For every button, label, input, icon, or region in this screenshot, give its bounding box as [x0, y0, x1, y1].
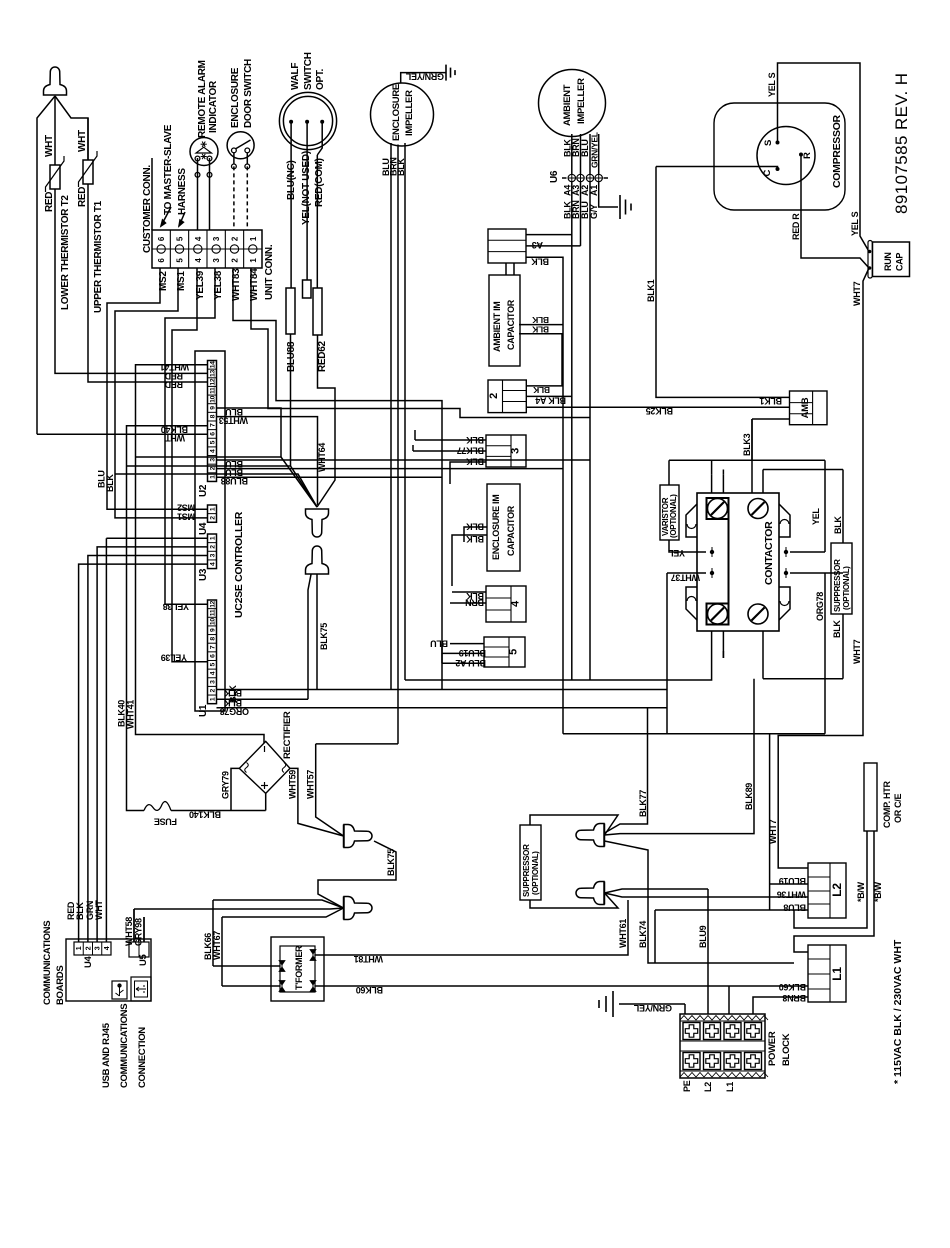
svg-text:T'FORMER: T'FORMER [294, 945, 304, 990]
svg-text:8: 8 [210, 414, 217, 418]
svg-text:YEL39: YEL39 [161, 653, 187, 663]
svg-text:R: R [802, 152, 813, 159]
svg-text:7: 7 [210, 645, 217, 649]
svg-text:BLK: BLK [75, 902, 85, 920]
svg-text:(OPTIONAL): (OPTIONAL) [669, 494, 678, 538]
svg-text:ENCLOSURE IM: ENCLOSURE IM [491, 495, 501, 560]
svg-text:4: 4 [104, 946, 111, 950]
svg-text:A3: A3 [532, 240, 543, 250]
svg-text:U1: U1 [198, 704, 209, 717]
svg-text:SUPPRESSOR: SUPPRESSOR [833, 559, 842, 612]
svg-text:BLK74: BLK74 [638, 921, 648, 948]
svg-text:ENCLOSURE: ENCLOSURE [391, 84, 402, 141]
svg-text:9: 9 [210, 628, 217, 632]
svg-text:INDICATOR: INDICATOR [208, 80, 219, 133]
svg-text:BLK25: BLK25 [646, 406, 673, 416]
svg-text:L1: L1 [830, 967, 844, 981]
svg-text:2: 2 [210, 516, 217, 520]
svg-text:OPT.: OPT. [315, 68, 326, 90]
svg-text:BLK: BLK [531, 325, 549, 335]
svg-text:5: 5 [210, 663, 217, 667]
svg-text:1: 1 [210, 475, 217, 479]
svg-text:4: 4 [210, 449, 217, 453]
svg-text:BLK: BLK [833, 516, 843, 534]
svg-text:6: 6 [210, 654, 217, 658]
svg-text:BLK1: BLK1 [759, 396, 782, 406]
svg-text:USB AND RJ45: USB AND RJ45 [101, 1022, 112, 1088]
svg-text:OR C/E: OR C/E [893, 793, 903, 823]
svg-text:WHT41: WHT41 [126, 700, 136, 729]
svg-text:BRN: BRN [465, 598, 484, 608]
svg-text:5: 5 [210, 440, 217, 444]
svg-text:CONNECTION: CONNECTION [137, 1027, 148, 1088]
svg-text:CAPACITOR: CAPACITOR [506, 505, 516, 556]
svg-text:2: 2 [210, 688, 217, 692]
svg-text:UPPER THERMISTOR T1: UPPER THERMISTOR T1 [93, 200, 104, 313]
svg-text:12: 12 [210, 600, 217, 607]
svg-text:BLK89: BLK89 [744, 783, 754, 810]
svg-text:GRN/YEL: GRN/YEL [405, 72, 444, 82]
svg-text:BLK A4: BLK A4 [535, 395, 566, 405]
svg-text:UC2SE CONTROLLER: UC2SE CONTROLLER [233, 511, 245, 618]
svg-text:U4: U4 [83, 955, 94, 968]
svg-text:BLU: BLU [580, 139, 590, 157]
svg-text:AMBIENT: AMBIENT [562, 84, 573, 126]
svg-text:BLK1: BLK1 [646, 279, 656, 302]
svg-text:PE: PE [682, 1080, 692, 1092]
svg-text:DOOR SWITCH: DOOR SWITCH [243, 59, 254, 128]
svg-text:RED(COM): RED(COM) [314, 158, 325, 207]
svg-text:10: 10 [210, 395, 217, 402]
svg-text:BLK: BLK [466, 522, 484, 532]
svg-text:1: 1 [76, 946, 83, 950]
svg-text:WHT: WHT [77, 130, 88, 152]
svg-text:BLU A2: BLU A2 [455, 658, 486, 668]
svg-text:BLK: BLK [531, 315, 549, 325]
svg-text:12: 12 [210, 378, 217, 385]
svg-text:BLU9: BLU9 [698, 925, 708, 948]
svg-text:(OPTIONAL): (OPTIONAL) [842, 566, 851, 610]
svg-text:BLK: BLK [466, 435, 484, 445]
svg-text:1: 1 [210, 697, 217, 701]
svg-text:WHT57: WHT57 [306, 770, 316, 799]
svg-text:7: 7 [210, 423, 217, 427]
svg-text:BLU88: BLU88 [286, 341, 297, 372]
svg-text:CAP: CAP [895, 253, 905, 271]
svg-text:2: 2 [210, 545, 217, 549]
svg-text:3: 3 [95, 946, 102, 950]
svg-text:BLU: BLU [430, 638, 448, 648]
svg-text:L1: L1 [725, 1082, 735, 1092]
svg-text:BLK75: BLK75 [319, 623, 329, 650]
svg-text:WHT7: WHT7 [852, 281, 862, 306]
svg-text:YEL S: YEL S [767, 72, 777, 97]
svg-text:ORG78: ORG78 [220, 706, 249, 716]
svg-text:BLK: BLK [466, 534, 484, 544]
svg-text:WHT36: WHT36 [777, 890, 806, 900]
svg-text:WHT61: WHT61 [618, 919, 628, 948]
svg-text:* 115VAC BLK / 230VAC WHT: * 115VAC BLK / 230VAC WHT [892, 939, 904, 1084]
svg-text:CONTACTOR: CONTACTOR [763, 521, 775, 585]
svg-text:(OPTIONAL): (OPTIONAL) [531, 851, 540, 895]
svg-text:WHT53: WHT53 [219, 416, 248, 426]
svg-text:WHT41: WHT41 [160, 362, 189, 372]
svg-text:8: 8 [210, 637, 217, 641]
svg-text:BLK: BLK [531, 256, 549, 266]
svg-text:YEL: YEL [668, 548, 685, 558]
svg-text:BLK: BLK [396, 158, 406, 176]
svg-text:CAPACITOR: CAPACITOR [506, 299, 516, 350]
svg-text:BLK75: BLK75 [386, 849, 396, 876]
svg-text:U5: U5 [138, 953, 149, 966]
svg-text:5: 5 [508, 649, 520, 655]
svg-text:RECTIFIER: RECTIFIER [282, 711, 293, 759]
svg-text:WHT7: WHT7 [852, 639, 862, 664]
svg-text:IMPELLER: IMPELLER [576, 78, 587, 124]
svg-text:COMMUNICATIONS: COMMUNICATIONS [42, 921, 53, 1005]
svg-text:IMPELLER: IMPELLER [404, 90, 415, 136]
svg-text:11: 11 [210, 387, 217, 394]
svg-text:BLK: BLK [466, 457, 484, 467]
svg-text:GRY79: GRY79 [221, 771, 231, 799]
svg-text:89107585 REV. H: 89107585 REV. H [892, 73, 911, 214]
svg-text:MS2: MS2 [177, 503, 195, 513]
svg-text:YEL S: YEL S [850, 211, 860, 236]
svg-text:WHT81: WHT81 [354, 954, 383, 964]
svg-text:13: 13 [210, 369, 217, 376]
svg-text:S: S [763, 140, 774, 146]
svg-text:BOARDS: BOARDS [55, 966, 66, 1005]
svg-text:BLK77: BLK77 [638, 790, 648, 817]
svg-text:BLOCK: BLOCK [781, 1033, 792, 1066]
svg-text:SUPPRESSOR: SUPPRESSOR [522, 844, 531, 897]
svg-text:L2: L2 [703, 1082, 713, 1092]
svg-text:4: 4 [210, 671, 217, 675]
svg-text:RUN: RUN [883, 252, 893, 271]
svg-text:U2: U2 [198, 484, 209, 497]
svg-text:*B/W: *B/W [873, 881, 883, 902]
svg-text:YEL: YEL [811, 508, 821, 525]
svg-text:POWER: POWER [767, 1031, 778, 1066]
svg-text:6: 6 [210, 432, 217, 436]
svg-text:YEL(NOT USED): YEL(NOT USED) [301, 151, 312, 225]
svg-text:9: 9 [210, 406, 217, 410]
svg-text:FUSE: FUSE [154, 817, 177, 827]
svg-text:4: 4 [210, 562, 217, 566]
svg-text:RED R: RED R [791, 213, 801, 240]
svg-text:2: 2 [488, 393, 500, 399]
svg-text:3: 3 [210, 458, 217, 462]
svg-text:COMP. HTR: COMP. HTR [882, 781, 892, 828]
svg-text:BLU: BLU [225, 407, 243, 417]
svg-text:U6: U6 [549, 170, 560, 183]
svg-text:3: 3 [510, 448, 522, 454]
svg-text:MS1: MS1 [177, 511, 195, 521]
svg-text:2: 2 [210, 466, 217, 470]
svg-text:ENCLOSURE: ENCLOSURE [230, 67, 241, 128]
svg-text:LOWER THERMISTOR T2: LOWER THERMISTOR T2 [60, 195, 71, 310]
svg-text:BLU: BLU [225, 459, 243, 469]
svg-text:BLU(NC): BLU(NC) [286, 160, 297, 200]
svg-text:BLK60: BLK60 [779, 982, 806, 992]
svg-text:BLK3: BLK3 [742, 433, 752, 456]
svg-text:RED62: RED62 [317, 341, 328, 372]
svg-text:GRN/YEL: GRN/YEL [633, 1003, 672, 1013]
svg-text:AMBIENT IM: AMBIENT IM [492, 302, 502, 353]
svg-text:HARNESS: HARNESS [177, 168, 188, 215]
svg-text:L2: L2 [830, 883, 844, 897]
svg-text:WHT59: WHT59 [288, 770, 298, 799]
svg-text:TO MASTER-SLAVE: TO MASTER-SLAVE [163, 124, 174, 215]
svg-text:1: 1 [210, 536, 217, 540]
svg-text:WALF: WALF [290, 63, 301, 90]
svg-text:WHT: WHT [44, 135, 55, 157]
svg-text:SWITCH: SWITCH [303, 52, 314, 90]
svg-text:BRN8: BRN8 [782, 993, 806, 1003]
svg-text:*B/W: *B/W [856, 881, 866, 902]
svg-text:BLU88: BLU88 [221, 476, 248, 486]
svg-text:RED: RED [164, 371, 183, 381]
svg-text:BLU19: BLU19 [779, 876, 806, 886]
svg-text:3: 3 [210, 553, 217, 557]
svg-text:BLK: BLK [532, 385, 550, 395]
svg-text:BLK60: BLK60 [356, 985, 383, 995]
svg-text:ORG78: ORG78 [815, 592, 825, 621]
svg-text:BLK: BLK [832, 620, 842, 638]
svg-text:11: 11 [210, 609, 217, 616]
svg-text:YEL38: YEL38 [163, 602, 189, 612]
svg-text:3: 3 [210, 680, 217, 684]
svg-text:REMOTE ALARM: REMOTE ALARM [197, 60, 208, 138]
svg-text:BLK140: BLK140 [189, 809, 221, 819]
svg-text:1: 1 [210, 507, 217, 511]
svg-text:10: 10 [210, 618, 217, 625]
svg-text:14: 14 [210, 361, 217, 368]
svg-text:UNIT CONN.: UNIT CONN. [264, 244, 275, 300]
svg-text:RED: RED [44, 192, 55, 212]
svg-text:WHT64: WHT64 [317, 443, 327, 472]
svg-text:2: 2 [85, 946, 92, 950]
svg-text:COMPRESSOR: COMPRESSOR [831, 114, 843, 188]
svg-text:C: C [762, 170, 773, 177]
svg-text:GRN/YEL: GRN/YEL [590, 132, 600, 168]
svg-text:WHT37: WHT37 [671, 573, 700, 583]
svg-text:AMB: AMB [800, 397, 811, 418]
svg-text:U4: U4 [198, 522, 209, 535]
svg-text:U3: U3 [198, 568, 209, 581]
svg-text:COMMUNICATIONS: COMMUNICATIONS [119, 1004, 130, 1088]
svg-text:RED: RED [77, 187, 88, 207]
svg-text:RED: RED [164, 379, 183, 389]
svg-text:WHT: WHT [94, 900, 104, 920]
svg-text:BLU19: BLU19 [459, 648, 486, 658]
svg-text:BLU: BLU [225, 468, 243, 478]
svg-text:BLK77: BLK77 [457, 446, 484, 456]
svg-text:BLK: BLK [228, 685, 238, 703]
